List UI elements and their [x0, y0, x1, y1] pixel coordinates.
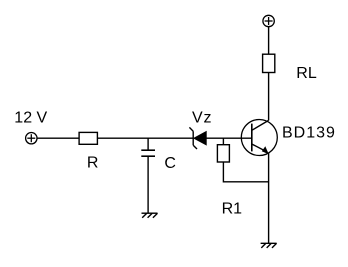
svg-text:R1: R1: [222, 200, 243, 217]
transistor Q1 BD139: [241, 120, 277, 156]
ground (below emitter): [261, 243, 277, 248]
wire: base node down to resistor R1: [222, 138, 224, 145]
svg-text:BD139: BD139: [282, 125, 336, 142]
wire: emitter down to ground: [268, 153, 270, 244]
wire: collector up to resistor RL: [268, 73, 270, 121]
svg-text:C: C: [164, 155, 176, 172]
wire: top terminal to resistor RL: [268, 27, 270, 55]
wire: resistor R to zener cathode (passes capacitor tap): [97, 137, 193, 139]
terminal: +12V supply (left): [26, 133, 37, 144]
resistor R1: [217, 145, 229, 162]
wire: zener anode to transistor base: [206, 137, 252, 139]
resistor R: [79, 132, 97, 144]
zener diode Vz: [189, 127, 206, 149]
wire: R1 bottom down and right to emitter: [223, 162, 268, 182]
terminal: + supply (top): [263, 15, 274, 26]
svg-text:R: R: [87, 154, 99, 171]
capacitor C: [141, 138, 155, 213]
wire: left terminal to resistor R: [37, 137, 79, 139]
svg-text:Vz: Vz: [192, 109, 212, 126]
svg-text:RL: RL: [296, 65, 317, 82]
ground (below capacitor C): [142, 213, 158, 218]
svg-text:12 V: 12 V: [14, 110, 47, 127]
resistor RL: [263, 54, 275, 72]
